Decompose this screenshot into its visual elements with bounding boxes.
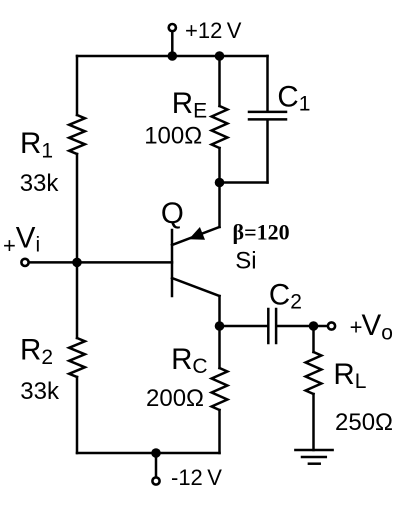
svg-text:33k: 33k <box>20 378 60 405</box>
svg-text:+12 V: +12 V <box>185 18 242 43</box>
svg-text:-12 V: -12 V <box>171 465 222 490</box>
svg-text:β=120: β=120 <box>233 220 290 245</box>
svg-text:Q: Q <box>161 197 184 230</box>
svg-text:Si: Si <box>235 248 256 275</box>
svg-text:250Ω: 250Ω <box>335 409 393 436</box>
svg-text:100Ω: 100Ω <box>144 123 202 150</box>
svg-text:200Ω: 200Ω <box>146 385 204 412</box>
svg-text:+: + <box>3 233 16 258</box>
svg-text:33k: 33k <box>20 170 60 197</box>
